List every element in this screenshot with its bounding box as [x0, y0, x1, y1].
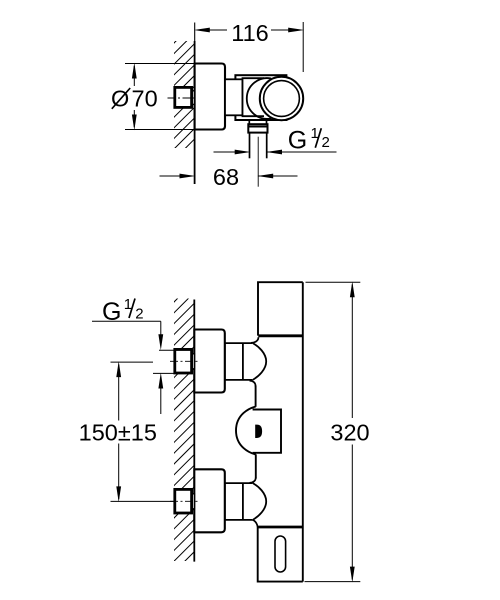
wall step fitting (top view) — [192, 91, 195, 105]
outlet pipe G1/2 (top view) — [249, 133, 251, 159]
upper inlet dome (bottom view) — [253, 343, 266, 380]
bottom plate (bottom view) — [258, 527, 303, 582]
lower escutcheon (bottom view) — [194, 469, 225, 532]
dimension Ø70 — [125, 64, 195, 130]
svg-text:2: 2 — [135, 306, 143, 323]
wall hatching (bottom view) — [171, 278, 198, 586]
lower inlet centerline — [170, 500, 198, 502]
wall line (top view) — [194, 23, 196, 42]
lower union nut (bottom view) — [175, 489, 192, 513]
svg-text:116: 116 — [231, 20, 268, 46]
upper dome top fillet — [251, 337, 259, 343]
thick divider upper (bottom view) — [258, 334, 303, 337]
body left edge below knob — [255, 454, 257, 478]
dimension 150±15 — [111, 362, 177, 501]
body top section (bottom view) — [258, 282, 303, 335]
knob black mark — [255, 425, 262, 438]
escutcheon (top view) — [195, 64, 225, 130]
wall line (bottom view) — [193, 300, 195, 562]
svg-text:150±15: 150±15 — [79, 420, 157, 446]
upper escutcheon (bottom view) — [194, 330, 225, 393]
union nut in wall (top view) — [175, 87, 192, 107]
upper inlet centerline — [170, 360, 198, 362]
cartridge housing (top view) — [243, 78, 265, 116]
lower wall step fitting — [192, 494, 195, 509]
dimension 68 — [160, 175, 298, 177]
svg-text:320: 320 — [330, 419, 369, 445]
knob face plate (bottom view) — [253, 410, 281, 453]
center line of inlet (top view) — [168, 97, 198, 99]
outlet nut (top view) — [248, 124, 267, 132]
lower inlet neck (bottom view) — [225, 483, 253, 520]
dimension 320 — [305, 282, 361, 581]
outlet neck below body (top view) — [248, 120, 250, 124]
knob rear cone arc (top view) — [247, 78, 271, 119]
thread bottom arrow (bottom view) — [153, 373, 191, 414]
wall hatching (top view) — [171, 19, 198, 173]
upper dome bottom fillet — [250, 381, 256, 387]
leader for G 1/2 (bottom view) — [92, 321, 191, 350]
upper union nut (bottom view) — [175, 349, 192, 373]
svg-text:G: G — [288, 126, 307, 154]
upper inlet neck (bottom view) — [225, 343, 253, 380]
thick divider lower (bottom view) — [257, 526, 303, 529]
slot in bottom plate — [275, 536, 286, 572]
neck between escutcheon and body (top view) — [225, 79, 243, 115]
lower dome top fillet — [250, 478, 256, 483]
dimension G 1/2 (top view) — [214, 151, 337, 153]
body right edge (bottom view) — [302, 282, 304, 581]
dimension 116 — [197, 22, 303, 72]
svg-text:70: 70 — [132, 86, 158, 112]
lower dome bottom fillet — [253, 520, 258, 527]
temperature knob dome (bottom view) — [236, 407, 256, 455]
upper wall step fitting — [192, 354, 195, 369]
knob inner circle (top view) — [264, 81, 300, 117]
knob outer circle (top view) — [260, 77, 303, 120]
lower inlet dome (bottom view) — [253, 483, 266, 520]
body left edge between domes — [255, 386, 257, 407]
outlet center extension line (top view) — [257, 137, 259, 187]
svg-text:68: 68 — [213, 164, 239, 190]
body flange (top view) — [235, 75, 286, 120]
svg-text:2: 2 — [322, 134, 330, 151]
